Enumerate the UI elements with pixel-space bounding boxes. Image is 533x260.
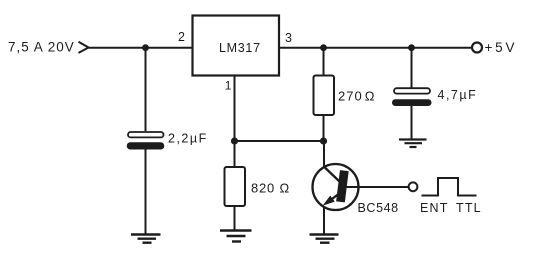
wire pin3 junction to R1 <box>323 48 325 76</box>
svg-text:+5V: +5V <box>485 40 518 55</box>
wire LM317 pin 3 to +5V output <box>279 47 472 49</box>
wire C2 junction to C2 <box>411 48 413 88</box>
wire C2 to ground <box>411 106 413 140</box>
wire input to LM317 pin 2 <box>89 47 193 49</box>
node collector junction <box>320 137 327 144</box>
node C2 junction <box>408 44 415 51</box>
svg-text:3: 3 <box>285 31 292 45</box>
svg-text:820 Ω: 820 Ω <box>251 180 290 195</box>
TTL pulse waveform symbol <box>422 178 477 196</box>
capacitor C2 4,7uF <box>392 88 432 106</box>
capacitor C1 2,2uF <box>127 132 164 150</box>
transistor Q1 BC548 <box>313 164 359 210</box>
wire adjust node to R2 <box>234 141 236 167</box>
ground under C1 <box>131 235 161 243</box>
wire R1 to collector node <box>323 115 325 141</box>
input terminal arrow <box>79 42 89 53</box>
wire Q1 base to ENT terminal <box>345 186 409 188</box>
node adjust junction <box>231 137 238 144</box>
svg-text:ENT: ENT <box>420 201 449 215</box>
ground under C2 <box>399 140 427 148</box>
wire C1 to ground <box>145 149 147 235</box>
wire junction to C1 <box>145 48 147 131</box>
svg-text:2,2µF: 2,2µF <box>168 132 208 146</box>
resistor R1 270 ohm <box>314 76 335 116</box>
ground under R2 <box>220 231 252 242</box>
svg-text:LM317: LM317 <box>219 41 261 55</box>
wire LM317 pin 1 to adjust node <box>234 76 236 142</box>
regulator U1 LM317 <box>193 16 280 76</box>
svg-text:1: 1 <box>225 79 232 93</box>
svg-text:7,5 A 20V: 7,5 A 20V <box>8 40 75 55</box>
node input junction <box>142 44 149 51</box>
wire adjust node to collector node <box>235 140 324 142</box>
svg-text:2: 2 <box>178 30 185 44</box>
svg-text:270 Ω: 270 Ω <box>338 89 376 104</box>
resistor R2 820 ohm <box>225 167 246 206</box>
wire collector node to Q1 collector <box>323 141 325 169</box>
wire R2 to ground <box>234 206 236 231</box>
ground under Q1 emitter <box>310 235 339 243</box>
terminal ENT TTL <box>409 182 418 191</box>
label ENT TTL <box>420 201 482 215</box>
output terminal +5V <box>472 43 482 53</box>
wire Q1 emitter to ground <box>323 207 325 235</box>
node pin3 junction <box>320 44 327 51</box>
svg-text:BC548: BC548 <box>358 201 399 215</box>
svg-text:4,7µF: 4,7µF <box>438 88 478 102</box>
svg-text:TTL: TTL <box>456 201 482 215</box>
